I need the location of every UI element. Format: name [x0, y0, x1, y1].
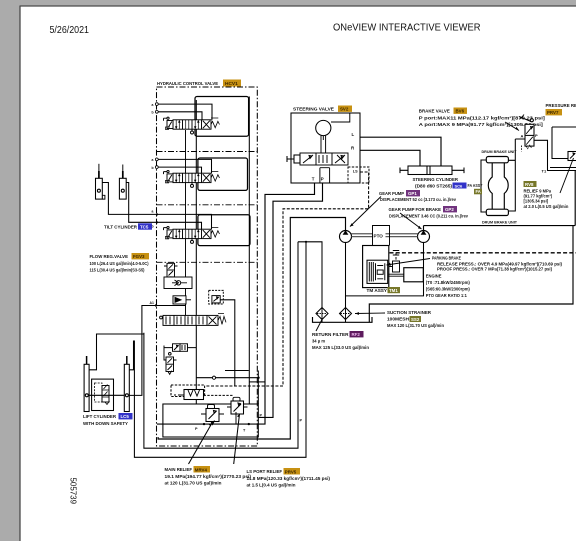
axle left side line: [481, 160, 486, 212]
svg-text:34 μ m: 34 μ m: [312, 339, 325, 344]
steering wheel rotor circle: [316, 120, 331, 135]
svg-text:b: b: [152, 166, 154, 170]
svg-text:T1: T1: [542, 169, 547, 174]
wire pilot valve to LS relief: [220, 300, 235, 386]
drum brake unit top shoe: [486, 157, 508, 163]
leader arrowhead suction strainer: [355, 312, 359, 315]
svg-text:LS: LS: [353, 169, 358, 173]
leader line LS port relief: [234, 414, 240, 464]
svg-text:PRESSURE RELIEF VALVE: PRESSURE RELIEF VALVE: [546, 103, 576, 108]
svg-text:DRUM BRAKE UNIT: DRUM BRAKE UNIT: [482, 219, 518, 224]
wire port b1 to spool 1: [158, 112, 202, 120]
svg-text:RETURN FILTER: RETURN FILTER: [312, 332, 349, 337]
svg-text:TC5: TC5: [140, 224, 149, 229]
wire T gallery lateral: [249, 381, 265, 383]
svg-text:WITH DOWN SAFETY: WITH DOWN SAFETY: [83, 421, 128, 426]
leader arrowhead parking brake: [387, 263, 392, 266]
wire T from steering down: [157, 183, 315, 424]
steering cylinder body: [400, 166, 464, 175]
tag GP2: [443, 206, 457, 212]
wire brake valve A to drum brakes: [508, 139, 525, 211]
svg-text:GEAR PUMP FOR BRAKE: GEAR PUMP FOR BRAKE: [389, 207, 442, 212]
dashed LS link to relief: [204, 394, 234, 396]
svg-text:LS PORT RELIEF: LS PORT RELIEF: [247, 469, 283, 474]
svg-text:STEERING VALVE: STEERING VALVE: [293, 107, 334, 112]
engine to TM shaft: [388, 274, 404, 276]
wire A1 to lift cylinders: [129, 306, 185, 396]
label PTO: [373, 231, 386, 239]
wire lift head line to cyl1: [89, 334, 144, 370]
main relief valve MRV4: [201, 409, 224, 425]
HCV1 boundary (dash-dot enclosure): [157, 87, 258, 446]
node lateral junction: [257, 377, 259, 379]
svg-text:SS2: SS2: [411, 317, 420, 322]
wire pump GP1 supply up-left: [158, 218, 345, 440]
svg-text:MAX 120 L(31.70 US gal)/min: MAX 120 L(31.70 US gal)/min: [387, 323, 445, 328]
pilot valve dashed box: [209, 290, 224, 304]
PRV7 enclosure box: [552, 127, 576, 159]
leader parking brake to TM: [387, 259, 431, 266]
wire port a1 to spool 1: [158, 104, 212, 120]
tag BV6: [454, 108, 468, 114]
T gallery vertical wire: [185, 130, 187, 315]
svg-text:L: L: [352, 132, 355, 137]
wire pump GP1 suction down: [345, 243, 347, 308]
tag TM1: [388, 287, 401, 293]
PTO drop lines: [373, 226, 390, 246]
svg-text:A: A: [521, 133, 524, 138]
bottom section box: [163, 404, 258, 437]
wire brake valve T to T1: [534, 140, 576, 170]
check valve box upper: [164, 277, 192, 289]
check valve right-pointing mid: [173, 296, 191, 304]
section 2 port a2: [152, 158, 159, 162]
orifice circle on lateral wire: [212, 376, 215, 379]
svg-text:A1: A1: [150, 301, 154, 305]
lift spool valve (wide): [160, 313, 226, 325]
tag RV8: [524, 181, 537, 187]
svg-text:(D80 d60 ST265): (D80 d60 ST265): [415, 184, 453, 189]
svg-text:RELEASE PRESS.: OVER 4.9 MPa(4: RELEASE PRESS.: OVER 4.9 MPa(49.97 kgf/c…: [437, 262, 563, 267]
svg-text:a: a: [152, 103, 154, 107]
wire lift cyl ports link: [89, 394, 124, 396]
tag SS2: [410, 316, 422, 322]
svg-text:SC6: SC6: [455, 183, 464, 188]
svg-text:FGV3: FGV3: [133, 254, 145, 259]
node return junction: [305, 241, 307, 243]
svg-text:LC5: LC5: [121, 414, 130, 419]
svg-text:ENGINE: ENGINE: [426, 274, 442, 279]
wire tilt rod line to section 3: [126, 183, 202, 230]
svg-text:RF2: RF2: [352, 332, 361, 337]
wire check to unload valve: [164, 347, 196, 349]
svg-text:DRUM BRAKE UNIT: DRUM BRAKE UNIT: [482, 149, 518, 154]
svg-text:MRV4: MRV4: [195, 467, 208, 472]
svg-text:at 2.0 L(0.5 US gal)/min: at 2.0 L(0.5 US gal)/min: [524, 204, 569, 209]
LS dashed box right of steering valve: [348, 167, 369, 183]
axle housing with center ball: [488, 163, 508, 209]
svg-text:(91.77 kgf/cm²): (91.77 kgf/cm²): [524, 194, 553, 199]
leader arrowhead GP2: [418, 226, 422, 229]
wire LS dashed from steering down to HCV: [205, 172, 369, 386]
section 3 box: [198, 215, 250, 246]
wire tilt bottom line to section 3: [102, 183, 211, 230]
section 1 port b1: [152, 110, 159, 114]
svg-text:PROOF PRESS.: OVER 7 MPa(71.38: PROOF PRESS.: OVER 7 MPa(71.38 kgf/cm²)(…: [437, 267, 553, 272]
tag HCV1: [223, 80, 241, 88]
tilt cylinder 2 body: [119, 165, 126, 200]
tank symbol: [313, 317, 373, 322]
svg-text:SV2: SV2: [340, 107, 349, 112]
wire return filter to tank: [321, 320, 323, 323]
P gallery vertical wire: [195, 100, 197, 404]
tag FGV3: [132, 253, 150, 259]
lift cylinder 2 body: [124, 356, 129, 412]
svg-text:P: P: [535, 133, 538, 138]
svg-text:RV8: RV8: [525, 182, 534, 187]
wire return branch left: [144, 242, 298, 448]
wire port a2 to spool 2: [158, 159, 211, 173]
svg-text:a: a: [152, 158, 154, 162]
tag RF2: [350, 331, 364, 337]
node tilt port a3: [152, 210, 159, 216]
tilt cylinder 1 body: [96, 164, 103, 199]
svg-text:ONeVIEW INTERACTIVE VIEWER: ONeVIEW INTERACTIVE VIEWER: [333, 23, 481, 34]
node A1 port: [150, 301, 158, 307]
rotor link lines: [321, 136, 326, 153]
main relief pilot valve in dashed box: [174, 390, 204, 400]
HCV1 section separator dash-dot line 2: [157, 204, 258, 206]
transmission gear symbol: [367, 260, 388, 283]
tag GP1: [406, 190, 420, 196]
svg-text:BRAKE VALVE: BRAKE VALVE: [419, 109, 450, 114]
svg-text:TM1: TM1: [389, 288, 398, 293]
lift cylinder 1 body: [84, 356, 89, 412]
wire P gallery lateral with orifice: [196, 371, 258, 405]
svg-text:[1305.34 psi]: [1305.34 psi]: [524, 199, 549, 204]
port divider lines steering: [320, 168, 330, 183]
svg-text:PTO GEAR RATIO 1:1: PTO GEAR RATIO 1:1: [426, 293, 468, 298]
return line frame top: [369, 171, 575, 322]
parking brake dashed pilot line: [390, 252, 576, 254]
svg-text:FLOW REG.VALVE: FLOW REG.VALVE: [90, 254, 129, 259]
svg-text:505739: 505739: [69, 478, 78, 505]
leader RV8 to valve: [560, 158, 574, 193]
svg-text:100 L(26.4 US gal)/min(4.0-5.0: 100 L(26.4 US gal)/min(4.0-5.0C): [90, 261, 150, 266]
steering spool body: [300, 153, 348, 165]
svg-text:FA: FA: [476, 189, 481, 194]
svg-text:PRV7: PRV7: [547, 110, 559, 115]
HCV1 section separator dash-dot line 3: [157, 261, 258, 263]
svg-text:(S65:60.3kW/2300rpm): (S65:60.3kW/2300rpm): [426, 287, 471, 292]
engine box: [404, 268, 424, 282]
RV8 relief valve body: [568, 152, 576, 161]
spool valve section 3: [164, 227, 220, 244]
svg-text:HYDRAULIC CONTROL VALVE: HYDRAULIC CONTROL VALVE: [157, 81, 218, 86]
svg-text:P: P: [321, 176, 324, 181]
svg-text:at 120 L(31.70 US gal)/min: at 120 L(31.70 US gal)/min: [165, 481, 223, 486]
svg-text:GP1: GP1: [408, 191, 417, 196]
TM assy box: [363, 246, 389, 288]
gear pump GP2 out arrow: [421, 230, 427, 235]
drum brake unit bottom shoe: [486, 209, 508, 215]
tag PRV5: [284, 468, 301, 475]
svg-text:(T0 :71.8kW/2450rpm): (T0 :71.8kW/2450rpm): [426, 280, 471, 285]
node T drain junction 1: [203, 423, 205, 425]
tag LC5: [119, 413, 133, 419]
tag FA: [474, 189, 482, 195]
svg-text:MAIN RELIEF: MAIN RELIEF: [165, 467, 193, 472]
svg-text:PRV5: PRV5: [285, 469, 297, 474]
wire tilt cyl1 hook: [102, 195, 105, 199]
suction strainer SS2: [340, 308, 352, 320]
wire pump GP2 supply to brake valve: [423, 226, 425, 231]
HCV1 section separator dash-dot line 1: [157, 151, 258, 153]
internal feed link: [331, 113, 350, 122]
tag TC5: [138, 223, 152, 229]
section 1 box: [195, 97, 249, 137]
gear pump GP1 out arrow: [343, 230, 349, 235]
svg-text:T: T: [312, 176, 315, 181]
svg-text:RELIEF 9 MPa: RELIEF 9 MPa: [524, 188, 552, 193]
leader line GP1 to pump: [350, 197, 381, 227]
spool valve section 1: [164, 117, 220, 134]
steering spool left cap and rod: [287, 155, 300, 163]
svg-text:19.1 MPa(194.77 kgf/cm²)(2770.: 19.1 MPa(194.77 kgf/cm²)(2770.23 psi): [165, 474, 252, 479]
parking brake actuator on TM: [389, 251, 400, 273]
wire R line to steering cylinder: [360, 150, 420, 166]
tag SC6: [453, 183, 467, 189]
svg-text:GP2: GP2: [445, 207, 454, 212]
brake valve body: [519, 115, 534, 152]
tag PRV7: [546, 109, 563, 115]
wire P from steering down: [258, 183, 322, 417]
svg-text:a: a: [152, 210, 154, 214]
leader line GP2 to pump: [400, 213, 422, 229]
svg-text:DISPLACEMENT 52 cc (3.173 cu.: DISPLACEMENT 52 cc (3.173 cu. in.)/rev: [380, 197, 457, 202]
tag SV2: [338, 106, 352, 112]
tag MRV4: [194, 466, 211, 473]
gear pump GP2 circle: [418, 231, 430, 243]
section 2 box: [198, 158, 248, 190]
steering valve enclosure box: [291, 113, 360, 183]
svg-text:GEAR PUMP: GEAR PUMP: [379, 191, 404, 196]
leader brake valve label: [505, 122, 519, 131]
section 1 port a1: [152, 103, 159, 107]
unload valve lower: [164, 346, 177, 375]
svg-text:115 L(30.4 US gal)/min(S3-S5): 115 L(30.4 US gal)/min(S3-S5): [90, 267, 146, 272]
wire MRV4 drain: [213, 412, 237, 424]
svg-text:FA ASSY: FA ASSY: [468, 183, 483, 188]
svg-text:TILT CYLINDER: TILT CYLINDER: [104, 224, 138, 229]
svg-text:100MESH: 100MESH: [387, 317, 409, 322]
LS port relief valve PRV5: [227, 401, 248, 414]
svg-text:LIFT CYLINDER: LIFT CYLINDER: [83, 414, 117, 419]
leader arrowhead brake valve: [516, 127, 519, 131]
svg-text:PTO: PTO: [374, 233, 384, 238]
svg-text:at 1.5 L(0.4 US gal)/min: at 1.5 L(0.4 US gal)/min: [247, 483, 297, 488]
wire port b2 to spool 2: [158, 167, 201, 173]
svg-text:SUCTION STRAINER: SUCTION STRAINER: [387, 310, 432, 315]
valve body right edge wire: [248, 97, 250, 405]
wire return filter feed: [129, 242, 322, 457]
svg-text:BV6: BV6: [456, 109, 465, 114]
node T drain junction 2: [248, 423, 250, 425]
leader arrowhead GP1: [350, 223, 354, 226]
down safety valve box: [92, 379, 114, 410]
wire pump GP2 suction down: [346, 243, 424, 296]
svg-text:11.8 MPa(120.33 kgf/cm²)(1711.: 11.8 MPa(120.33 kgf/cm²)(1711.45 psi): [247, 476, 331, 481]
gear pump GP1 circle: [340, 231, 352, 243]
svg-text:TM ASSY: TM ASSY: [367, 288, 388, 293]
LS dashed box: [171, 385, 205, 397]
leader arrowhead main relief: [209, 423, 213, 426]
leader arrowhead LS port relief: [237, 414, 240, 417]
svg-text:HCV1: HCV1: [225, 81, 238, 87]
return filter RF2: [316, 308, 328, 320]
leader suction strainer: [355, 312, 385, 315]
spool valve section 2: [164, 171, 220, 188]
svg-text:STEERING CYLINDER: STEERING CYLINDER: [413, 177, 459, 182]
LS port relief valve PRV5 pilot cap: [233, 397, 240, 401]
section 2 port b2: [152, 166, 159, 170]
svg-text:b: b: [152, 111, 154, 115]
svg-text:5/26/2021: 5/26/2021: [50, 25, 90, 36]
solenoid valve lower: [173, 344, 188, 352]
svg-text:PARKING BRAKE: PARKING BRAKE: [432, 256, 461, 261]
PTO shaft double line: [352, 234, 418, 237]
leader return filter: [316, 320, 322, 332]
leader line main relief: [189, 423, 213, 464]
wire L line to steering cylinder: [360, 137, 441, 166]
node tilt port b3: [152, 221, 159, 228]
wire strainer to tank: [345, 320, 347, 323]
svg-text:MAX 125 L(33.0 US gal)/min: MAX 125 L(33.0 US gal)/min: [312, 345, 370, 350]
main relief valve MRV4 pilot cap: [208, 405, 215, 410]
flow regulator valve FGV3 vertical body: [164, 263, 178, 279]
